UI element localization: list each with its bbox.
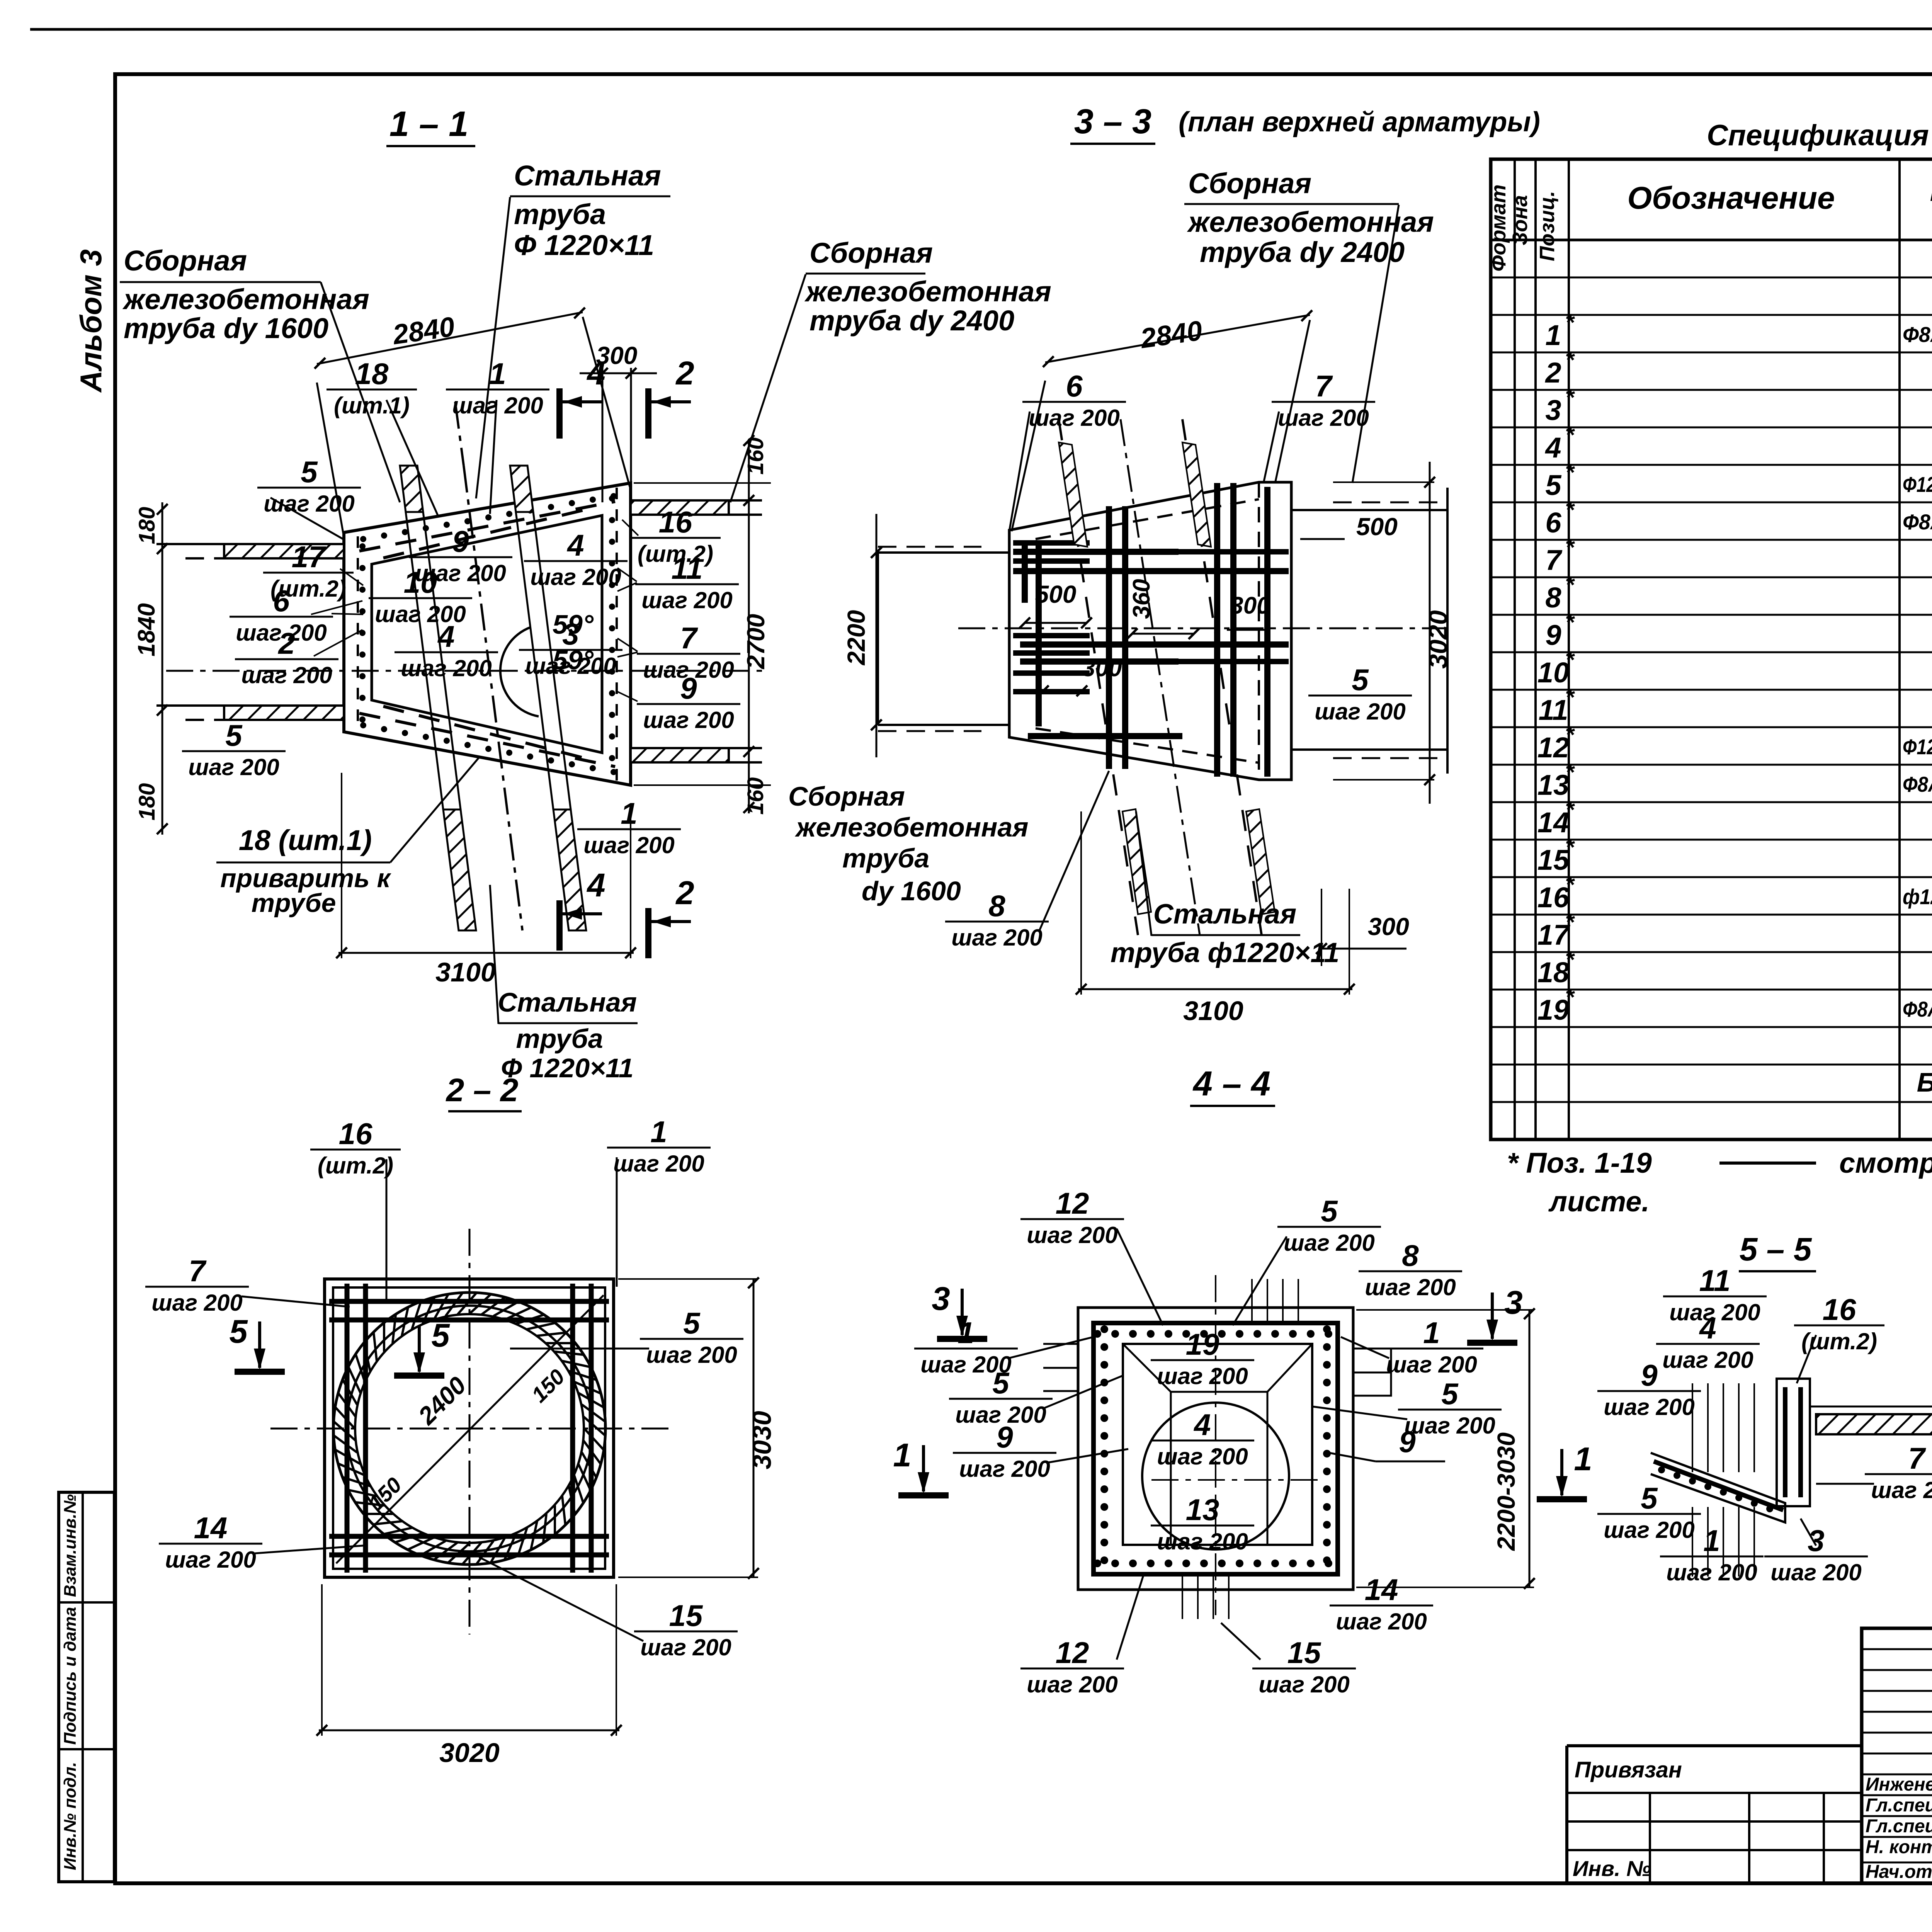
- view 2-2 dim 3020: [319, 1730, 619, 1731]
- label 5 шаг 200 top-left: [257, 455, 361, 517]
- svg-text:шаг 200: шаг 200: [1157, 1363, 1248, 1389]
- svg-text:шаг 200: шаг 200: [646, 1342, 737, 1368]
- svg-text:железобетонная: железобетонная: [794, 812, 1029, 842]
- label 1 шаг 200: [446, 357, 549, 418]
- svg-text:1840: 1840: [133, 603, 160, 656]
- svg-text:Инв.№ подл.: Инв.№ подл.: [61, 1762, 80, 1870]
- 5-5 label 1: [1660, 1524, 1764, 1585]
- view 5-5 wall element: [1777, 1379, 1810, 1506]
- view 2-2 label 1: [607, 1115, 711, 1177]
- svg-text:шаг 200: шаг 200: [583, 832, 675, 858]
- svg-text:шаг 200: шаг 200: [613, 1151, 704, 1177]
- view 3-3 body outline: [1009, 482, 1291, 780]
- svg-text:шаг 200: шаг 200: [525, 653, 616, 679]
- svg-text:5: 5: [1321, 1194, 1338, 1228]
- svg-text:шаг 200: шаг 200: [1666, 1560, 1757, 1585]
- view 1-1 right dims 160 2700 160: [634, 482, 771, 484]
- svg-text:Сборная: Сборная: [810, 237, 933, 269]
- view 3-3 dim 2840: [1045, 315, 1310, 362]
- svg-text:10: 10: [404, 565, 437, 599]
- svg-text:*: *: [1565, 797, 1575, 823]
- view 2-2 pipe rings: [333, 1293, 605, 1565]
- svg-text:*: *: [1565, 347, 1575, 373]
- view 1-1 chamber body: [344, 483, 631, 785]
- view 4-4 inner structure: [1123, 1344, 1312, 1545]
- svg-text:14: 14: [1537, 806, 1569, 838]
- view 3-3 label 7 шаг 200: [1272, 369, 1375, 431]
- svg-text:11: 11: [1699, 1264, 1731, 1298]
- label 9 шаг 200: [409, 524, 512, 586]
- view 3-3 dim 3020 right: [1429, 462, 1431, 804]
- svg-text:шаг 200: шаг 200: [1604, 1517, 1695, 1543]
- svg-text:шаг 200: шаг 200: [1770, 1560, 1862, 1585]
- svg-text:12: 12: [1056, 1186, 1089, 1220]
- svg-text:Стальная: Стальная: [514, 160, 661, 192]
- svg-text:*: *: [1565, 534, 1575, 560]
- svg-text:9: 9: [1545, 619, 1561, 651]
- svg-text:4: 4: [1544, 432, 1561, 464]
- svg-text:3: 3: [1545, 394, 1561, 426]
- svg-text:шаг 200: шаг 200: [188, 754, 279, 780]
- svg-text:Альбом 3: Альбом 3: [74, 249, 108, 393]
- svg-text:шаг 200: шаг 200: [1029, 405, 1120, 431]
- section mark 1 right: [1537, 1441, 1592, 1499]
- view 2-2 label 16 шт.2: [310, 1117, 401, 1179]
- svg-text:Ф8АI ГОСТ 5781-82*, l=2490: Ф8АI ГОСТ 5781-82*, l=2490: [1903, 510, 1932, 534]
- svg-text:1 – 1: 1 – 1: [389, 104, 469, 144]
- view 4-4 side tabs: [1043, 1344, 1078, 1391]
- label 10 шаг 200: [369, 565, 472, 627]
- svg-text:300: 300: [1368, 913, 1409, 940]
- svg-text:4: 4: [566, 528, 584, 562]
- svg-text:3: 3: [932, 1281, 950, 1317]
- svg-text:360: 360: [1128, 579, 1155, 619]
- svg-text:шаг 200: шаг 200: [640, 1634, 731, 1660]
- view 3-3 label 8 шаг 200: [945, 889, 1049, 951]
- label 13 шаг 200: [1151, 1493, 1254, 1554]
- svg-text:13: 13: [1537, 769, 1569, 801]
- svg-text:шаг 200: шаг 200: [1259, 1672, 1350, 1697]
- privyazan table: [1567, 1746, 1862, 1883]
- svg-text:Гл.спец.: Гл.спец.: [1866, 1795, 1932, 1816]
- label 17 шт.2: [263, 540, 354, 602]
- svg-text:шаг 200: шаг 200: [1871, 1477, 1932, 1503]
- svg-text:1: 1: [957, 1316, 974, 1350]
- label 5 шаг 200 bottom-left: [182, 718, 286, 780]
- section mark 3 left: [932, 1281, 987, 1339]
- svg-text:5: 5: [1641, 1481, 1658, 1515]
- label 18 шт.1: [327, 357, 417, 418]
- svg-text:1: 1: [1423, 1316, 1440, 1350]
- svg-text:шаг 200: шаг 200: [1278, 405, 1369, 431]
- view 1-1 right pipe dy2400 hatched walls: [631, 500, 729, 515]
- svg-text:ф12АII ГОСТ 5781-82*, l=9030: ф12АII ГОСТ 5781-82*, l=9030: [1903, 884, 1932, 909]
- svg-text:1: 1: [1545, 319, 1561, 351]
- svg-text:19: 19: [1186, 1327, 1219, 1361]
- svg-text:труба dy 1600: труба dy 1600: [124, 312, 328, 344]
- section mark 5 inner: [394, 1317, 450, 1376]
- svg-text:*: *: [1565, 310, 1575, 335]
- svg-text:Нач.отд.: Нач.отд.: [1866, 1862, 1932, 1882]
- view 1-1 left dims 180 1840 180: [162, 502, 163, 835]
- leader lines from 18 and 1: [386, 400, 439, 517]
- view 1-1 angle arcs 59: [500, 627, 539, 716]
- svg-text:3: 3: [562, 617, 579, 651]
- 5-5 label 11: [1663, 1264, 1767, 1325]
- svg-text:8: 8: [1402, 1238, 1419, 1272]
- sheet top edge line: [30, 29, 1932, 29]
- svg-text:шаг 200: шаг 200: [401, 655, 492, 681]
- svg-text:(план верхней арматуры): (план верхней арматуры): [1179, 107, 1540, 138]
- view 3-3 bold rebar horizontals: [1013, 549, 1179, 555]
- svg-text:Гл.спец.: Гл.спец.: [1866, 1816, 1932, 1837]
- svg-text:Инв. №: Инв. №: [1573, 1856, 1651, 1881]
- svg-text:5: 5: [1441, 1377, 1459, 1411]
- svg-text:шаг 200: шаг 200: [1027, 1672, 1118, 1697]
- svg-text:2: 2: [277, 626, 295, 660]
- svg-text:5: 5: [301, 455, 318, 489]
- svg-text:7: 7: [189, 1254, 207, 1288]
- label 2 шаг 200: [235, 626, 338, 688]
- view 1-1 bottom wall rebar dashes: [359, 706, 617, 775]
- svg-text:19: 19: [1537, 994, 1569, 1026]
- view 3-3 diagonal pipe dashed: [1121, 419, 1200, 935]
- svg-text:18 (шт.1): 18 (шт.1): [239, 824, 372, 856]
- svg-text:шаг 200: шаг 200: [959, 1456, 1050, 1482]
- svg-text:труба dy 2400: труба dy 2400: [1200, 236, 1405, 268]
- spec table grid: [1491, 159, 1932, 1139]
- svg-text:Формат: Формат: [1487, 184, 1510, 271]
- section mark 3 right: [1467, 1284, 1523, 1343]
- svg-text:листе.: листе.: [1548, 1185, 1650, 1218]
- svg-text:труба dy 2400: труба dy 2400: [810, 304, 1014, 337]
- svg-text:Взам.инв.№: Взам.инв.№: [61, 1494, 80, 1597]
- svg-text:180: 180: [134, 507, 160, 544]
- view 3-3 centerline horizontal: [958, 628, 1447, 629]
- view 1-1 left pipe dy1600 hatched walls: [224, 544, 344, 558]
- svg-text:Сборная: Сборная: [124, 245, 247, 277]
- view 2-2 label 7: [145, 1254, 249, 1316]
- title block frame: [1862, 1628, 1932, 1883]
- svg-text:2700: 2700: [742, 614, 770, 669]
- svg-text:2200-3030: 2200-3030: [1492, 1432, 1520, 1551]
- svg-text:16: 16: [1823, 1293, 1856, 1327]
- svg-text:* Поз. 1-19: * Поз. 1-19: [1507, 1147, 1652, 1179]
- svg-text:12: 12: [1537, 731, 1569, 764]
- label 5 шаг 200 top: [1277, 1194, 1381, 1256]
- label 4 шаг200: [524, 528, 628, 590]
- label 7 шаг 200: [637, 621, 740, 683]
- svg-text:*: *: [1565, 722, 1575, 748]
- svg-text:*: *: [1565, 684, 1575, 710]
- 5-5 label 7: [1865, 1441, 1932, 1503]
- svg-text:300: 300: [1082, 655, 1122, 682]
- svg-text:Ф12АII ГОСТ 5781-82*, lср.=374: Ф12АII ГОСТ 5781-82*, lср.=3740: [1903, 472, 1932, 497]
- svg-text:4: 4: [437, 619, 454, 653]
- label 14 шаг 200: [1330, 1573, 1433, 1634]
- svg-text:*: *: [1565, 759, 1575, 785]
- svg-text:1: 1: [621, 796, 637, 830]
- svg-text:смотри ведомость деталей на да: смотри ведомость деталей на данном: [1839, 1147, 1932, 1179]
- svg-text:*: *: [1565, 497, 1575, 523]
- view 2-2 dim 3030: [753, 1279, 755, 1577]
- svg-text:Зона: Зона: [1509, 195, 1532, 245]
- svg-text:7: 7: [1908, 1441, 1926, 1475]
- svg-text:2: 2: [1544, 357, 1561, 389]
- view 3-3 dim 3100: [1078, 988, 1352, 990]
- svg-text:шаг 200: шаг 200: [241, 662, 332, 688]
- view 3-3 label 6 шаг 200: [1022, 369, 1126, 431]
- label 8 шаг 200: [1359, 1238, 1462, 1300]
- label 1 left: [914, 1316, 1018, 1378]
- svg-text:6: 6: [1066, 369, 1083, 403]
- svg-text:Ф8АI ГОСТ5781-82*, lср.=2680: Ф8АI ГОСТ5781-82*, lср.=2680: [1903, 772, 1932, 796]
- svg-text:Обозначение: Обозначение: [1627, 180, 1835, 216]
- svg-text:железобетонная: железобетонная: [804, 276, 1051, 308]
- svg-text:шаг 200: шаг 200: [1365, 1274, 1456, 1300]
- svg-text:1: 1: [1574, 1441, 1592, 1478]
- section mark 5 left: [229, 1313, 285, 1372]
- view 3-3 short corner bars: [1013, 540, 1090, 546]
- svg-text:железобетонная: железобетонная: [122, 283, 369, 315]
- svg-text:500: 500: [1356, 513, 1398, 541]
- svg-text:Ф8АI ГОСТ 5781-82*, lср.=2740: Ф8АI ГОСТ 5781-82*, lср.=2740: [1903, 997, 1932, 1021]
- svg-text:6: 6: [273, 584, 290, 618]
- view 1-1 right wall rebar: [609, 488, 617, 781]
- svg-text:3: 3: [1504, 1284, 1522, 1321]
- section mark 2 top: [648, 355, 694, 439]
- svg-text:7: 7: [680, 621, 698, 655]
- view 4-4 dotted rebar frame: [1094, 1323, 1338, 1574]
- view 2-2 label 15: [634, 1599, 738, 1660]
- svg-text:5: 5: [1352, 663, 1369, 697]
- label 15 шаг 200 bottom: [1252, 1636, 1356, 1697]
- svg-text:шаг 200: шаг 200: [1336, 1609, 1427, 1634]
- svg-text:труба: труба: [514, 198, 606, 230]
- left stamp table: [59, 1492, 114, 1882]
- svg-text:шаг 200: шаг 200: [1157, 1529, 1248, 1554]
- view 1-1 top wall rebar dashes: [359, 493, 617, 558]
- svg-text:5: 5: [431, 1317, 450, 1354]
- svg-text:шаг 200: шаг 200: [641, 587, 733, 613]
- svg-text:11: 11: [1539, 694, 1568, 726]
- svg-text:3: 3: [1808, 1524, 1824, 1558]
- svg-text:9: 9: [452, 524, 469, 558]
- svg-text:3020: 3020: [439, 1738, 500, 1768]
- svg-text:Сборная: Сборная: [1188, 167, 1311, 199]
- svg-text:11: 11: [672, 551, 703, 585]
- svg-text:шаг 200: шаг 200: [643, 707, 734, 733]
- svg-text:8: 8: [988, 889, 1005, 923]
- svg-text:15: 15: [1287, 1636, 1321, 1670]
- svg-text:шаг 200: шаг 200: [1027, 1222, 1118, 1248]
- svg-text:шаг 200: шаг 200: [1157, 1444, 1248, 1469]
- svg-text:9: 9: [1641, 1358, 1658, 1392]
- svg-text:4: 4: [1699, 1311, 1716, 1345]
- svg-text:Н. контр.: Н. контр.: [1866, 1837, 1932, 1857]
- svg-text:труба: труба: [842, 843, 929, 873]
- view 5-5 top slab hatched: [1816, 1414, 1932, 1434]
- label 5 right: [1398, 1377, 1502, 1439]
- leader fans right labels to wall: [622, 520, 638, 536]
- svg-text:*: *: [1565, 609, 1575, 635]
- svg-text:3100: 3100: [1183, 996, 1243, 1026]
- view 2-2 diagonal dim 2400: [336, 1295, 604, 1563]
- view 3-3 dim 300 bottom right: [1321, 889, 1322, 966]
- svg-text:шаг 200: шаг 200: [1315, 699, 1406, 724]
- svg-text:2200: 2200: [842, 610, 870, 665]
- svg-text:3100: 3100: [435, 957, 496, 987]
- svg-text:шаг 200: шаг 200: [530, 564, 621, 590]
- svg-text:*: *: [1565, 834, 1575, 860]
- view 2-2 outer square: [325, 1279, 614, 1577]
- svg-text:шаг 200: шаг 200: [1604, 1394, 1695, 1420]
- view 3-3 right pipe lines: [1291, 509, 1447, 511]
- svg-text:3030: 3030: [747, 1411, 777, 1469]
- svg-text:5: 5: [683, 1306, 701, 1340]
- svg-text:7: 7: [1545, 544, 1563, 576]
- svg-text:5 – 5: 5 – 5: [1740, 1231, 1812, 1267]
- svg-text:шаг 200: шаг 200: [452, 393, 543, 418]
- svg-text:1: 1: [650, 1115, 667, 1149]
- svg-text:шаг 200: шаг 200: [951, 925, 1043, 951]
- svg-text:9: 9: [680, 671, 697, 705]
- view 3-3 pipe exit hatch strips: [1059, 442, 1087, 547]
- svg-text:8: 8: [1545, 582, 1561, 614]
- view 1-1 diagonal steel pipe: [400, 402, 586, 930]
- view 4-4 outer square: [1078, 1308, 1353, 1590]
- svg-text:*: *: [1565, 459, 1575, 485]
- svg-text:Спецификация камеры ОП2.: Спецификация камеры ОП2.: [1707, 119, 1932, 152]
- svg-text:4: 4: [586, 867, 605, 904]
- leader fans left labels to wall: [340, 569, 363, 585]
- label 6 шаг 200: [230, 584, 333, 646]
- svg-text:3020: 3020: [1423, 610, 1453, 668]
- svg-text:Подпись и дата: Подпись и дата: [61, 1607, 80, 1745]
- svg-text:5: 5: [225, 718, 243, 752]
- section mark 4 top: [560, 355, 605, 439]
- svg-text:шаг 200: шаг 200: [1404, 1413, 1495, 1439]
- view 2-2 centerlines: [270, 1428, 668, 1430]
- svg-text:шаг 200: шаг 200: [1662, 1347, 1753, 1373]
- view 4-4 pipe circle: [1142, 1403, 1289, 1549]
- view 3-3 bold rebar verticals: [1022, 541, 1028, 603]
- svg-text:9: 9: [996, 1420, 1013, 1454]
- 5-5 label 16: [1794, 1293, 1884, 1354]
- svg-text:18: 18: [355, 357, 389, 391]
- view 3-3 left pipe lines: [878, 551, 1009, 554]
- svg-text:(шт.1): (шт.1): [334, 393, 410, 418]
- svg-text:*: *: [1565, 909, 1575, 935]
- spec table rows: [1537, 242, 1932, 1135]
- svg-text:*: *: [1565, 422, 1575, 448]
- svg-text:Стальная: Стальная: [498, 987, 637, 1017]
- svg-text:4: 4: [586, 355, 605, 392]
- view 5-5 vertical hatch lines: [1692, 1383, 1754, 1577]
- section mark 1 left: [893, 1437, 949, 1495]
- view 3-3 inner wall lines: [1008, 530, 1011, 737]
- label 4 шаг 200 mid: [395, 619, 498, 681]
- 5-5 label 9: [1597, 1358, 1701, 1420]
- section mark 4 bottom: [560, 867, 605, 951]
- svg-text:500: 500: [1035, 580, 1077, 608]
- label 19 шаг 200: [1151, 1327, 1254, 1389]
- svg-text:17: 17: [292, 540, 327, 574]
- 5-5 label 3: [1764, 1524, 1868, 1585]
- 5-5 label 5: [1597, 1481, 1701, 1543]
- svg-text:*: *: [1565, 572, 1575, 598]
- svg-text:*: *: [1565, 984, 1575, 1010]
- view 3-3 label 5 шаг 200: [1308, 663, 1412, 724]
- svg-text:трубе: трубе: [252, 888, 336, 918]
- svg-text:Привязан: Привязан: [1575, 1757, 1682, 1782]
- view 1-1 left wall rebar: [358, 536, 366, 728]
- svg-text:1: 1: [1703, 1524, 1720, 1558]
- svg-text:шаг 200: шаг 200: [151, 1290, 243, 1316]
- svg-text:шаг 200: шаг 200: [1284, 1230, 1375, 1256]
- svg-text:труба: труба: [516, 1024, 603, 1054]
- svg-text:180: 180: [134, 783, 160, 821]
- svg-text:шаг 200: шаг 200: [264, 491, 355, 517]
- svg-text:5: 5: [992, 1366, 1010, 1400]
- svg-text:7: 7: [1315, 369, 1333, 403]
- svg-text:*: *: [1565, 872, 1575, 898]
- label 4 шаг 200: [1151, 1408, 1254, 1469]
- svg-text:15: 15: [669, 1599, 703, 1633]
- svg-text:16: 16: [339, 1117, 372, 1151]
- svg-text:(шт.2): (шт.2): [318, 1153, 393, 1179]
- svg-text:5: 5: [229, 1313, 248, 1350]
- svg-text:Ф 1220×11: Ф 1220×11: [501, 1053, 633, 1083]
- svg-text:14: 14: [194, 1511, 228, 1545]
- svg-text:13: 13: [1186, 1493, 1219, 1527]
- svg-text:6: 6: [1545, 507, 1561, 539]
- svg-text:14: 14: [1365, 1573, 1398, 1607]
- label 9 шаг 200 right: [637, 671, 740, 733]
- svg-text:2 – 2: 2 – 2: [446, 1072, 519, 1108]
- view 1-1 bottom dim 3100: [338, 952, 634, 954]
- svg-text:4 – 4: 4 – 4: [1192, 1065, 1270, 1103]
- svg-text:Инженер: Инженер: [1866, 1774, 1932, 1795]
- svg-text:10: 10: [1537, 656, 1569, 689]
- svg-text:9: 9: [1399, 1425, 1416, 1459]
- section mark 2 bottom: [648, 875, 694, 958]
- svg-text:4: 4: [1193, 1408, 1211, 1442]
- view 4-4 dim 2200-3030: [1529, 1310, 1531, 1587]
- view 2-2 label 5 right: [640, 1306, 743, 1368]
- label 9 left: [953, 1420, 1056, 1482]
- svg-text:160: 160: [743, 777, 768, 815]
- svg-text:шаг 200: шаг 200: [1386, 1352, 1477, 1378]
- svg-text:300: 300: [1230, 592, 1270, 619]
- svg-text:Наименование: Наименование: [1930, 173, 1932, 207]
- 5-5 label 4: [1656, 1311, 1760, 1373]
- svg-text:3 – 3: 3 – 3: [1074, 102, 1151, 141]
- view 2-2 label 14: [159, 1511, 262, 1573]
- svg-text:Ф12АII ГОСТ5781-82*, lср.=2750: Ф12АII ГОСТ5781-82*, lср.=2750: [1903, 735, 1932, 759]
- view 5-5 diagonal slab: [1651, 1453, 1785, 1522]
- label 5 left: [949, 1366, 1053, 1428]
- label 1 шаг 200 bottom: [577, 796, 681, 858]
- svg-text:Ф8АI ГОСТ 5781-82*, l=6080: Ф8АI ГОСТ 5781-82*, l=6080: [1903, 322, 1932, 347]
- svg-text:*: *: [1565, 947, 1575, 973]
- svg-text:5: 5: [1545, 469, 1562, 501]
- label 3 шаг 200: [519, 617, 622, 679]
- label 16 шт.2: [630, 505, 721, 567]
- label 12 шаг 200 top: [1020, 1186, 1124, 1248]
- svg-text:Ф 1220×11: Ф 1220×11: [514, 229, 654, 261]
- label 1 right: [1380, 1316, 1483, 1378]
